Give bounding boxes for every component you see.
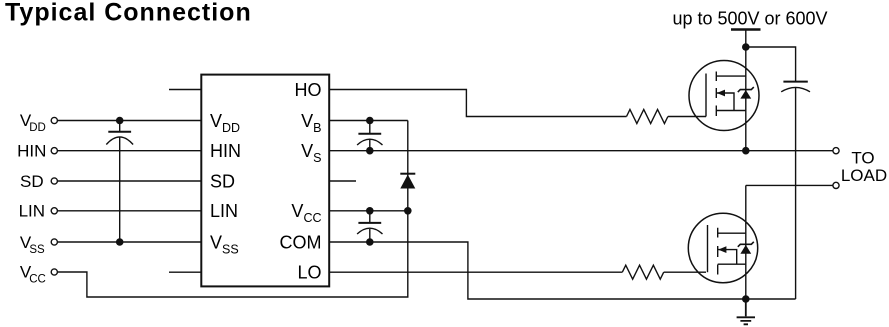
node COM/C3 junction <box>366 238 374 246</box>
capacitor C1 flat plate <box>108 131 131 133</box>
transistor Q2 low-side MOSFET circle <box>688 213 757 282</box>
capacitor C3 curved plate <box>357 228 382 234</box>
wire supply rail down to node <box>745 30 747 48</box>
wire Q2 drain vertical from load line to ground <box>745 185 747 299</box>
capacitor C2 wire bottom <box>369 139 371 150</box>
wire VS from U1 to load terminal <box>329 150 833 152</box>
terminal VSS <box>51 239 57 245</box>
terminal load upper <box>833 148 839 154</box>
transistor Q2 body diode triangle <box>740 245 751 254</box>
svg-text:LIN: LIN <box>19 202 45 221</box>
terminal HIN <box>51 148 57 154</box>
transistor Q2 body diode cathode bar <box>738 242 754 247</box>
capacitor C4 flat plate <box>783 81 807 83</box>
svg-text:CC: CC <box>29 274 46 286</box>
svg-text:DD: DD <box>29 122 46 134</box>
wire bootstrap diode vertical VB to VCC node <box>407 121 409 211</box>
transistor Q1 body lead <box>716 93 734 111</box>
capacitor C1 wire bottom to VSS <box>119 137 121 242</box>
transistor Q1 high-side MOSFET circle <box>689 61 759 131</box>
svg-text:VDD: VDD <box>210 111 240 135</box>
capacitor C1 curved plate <box>106 137 133 145</box>
terminal load lower <box>833 182 839 188</box>
node VCC/C3 junction <box>366 207 374 215</box>
svg-text:HIN: HIN <box>210 141 241 161</box>
unconnected stub left at HO level <box>169 89 201 91</box>
svg-text:VSS: VSS <box>210 232 239 256</box>
capacitor C1 VDD-VSS wire top <box>119 121 121 132</box>
wire VSS terminal to U1 <box>58 241 202 243</box>
wire LIN terminal to U1 <box>58 210 202 212</box>
capacitor C4 wire down to ground run <box>795 88 797 299</box>
node VS/C2 junction <box>366 147 374 155</box>
terminal VCC <box>51 269 57 275</box>
svg-text:LOAD: LOAD <box>841 166 887 185</box>
svg-text:TO: TO <box>851 149 874 168</box>
svg-text:COM: COM <box>280 232 322 252</box>
svg-text:SD: SD <box>210 171 235 191</box>
transistor Q2 source lead <box>718 263 746 265</box>
open terminals <box>51 117 839 275</box>
wire LO from U1 to gate resistor R2 <box>329 271 622 273</box>
svg-text:VS: VS <box>301 141 321 165</box>
resistor R2 low-side gate <box>622 265 663 279</box>
wire HO from U1 to gate resistor R1 <box>329 90 626 117</box>
svg-text:up to 500V or 600V: up to 500V or 600V <box>672 9 827 29</box>
node VSS/C1 junction <box>116 238 124 246</box>
transistor Q1 body diode triangle <box>740 90 751 99</box>
transistor Q2 body arrow <box>718 246 726 253</box>
node VDD/C1 junction <box>116 117 124 125</box>
ground symbol <box>737 299 755 324</box>
wire VDD terminal to U1 <box>58 120 202 122</box>
IC gate driver U1 box <box>201 75 329 287</box>
supply rail bar <box>731 28 761 30</box>
transistor Q2 body lead <box>718 250 737 265</box>
transistor Q1 channel segments <box>715 72 717 117</box>
diode D1 bootstrap triangle <box>400 175 415 189</box>
capacitor C3 wire bottom <box>369 229 371 242</box>
svg-text:SD: SD <box>20 172 44 191</box>
wire supply branch right to capacitor C4 <box>746 47 796 81</box>
node VB/C2 junction <box>366 117 374 125</box>
transistor Q2 gate bar <box>707 225 709 272</box>
capacitor C2 flat plate <box>358 133 381 135</box>
transistor Q1 body arrow <box>717 90 725 97</box>
capacitor C4 curved plate <box>781 87 810 91</box>
node VCC/D1 junction <box>404 207 412 215</box>
unconnected stub left at LO level <box>169 271 201 273</box>
terminal LIN <box>51 208 57 214</box>
svg-text:VB: VB <box>301 111 321 135</box>
svg-text:LO: LO <box>297 263 321 283</box>
transistor Q2 channel segments <box>717 228 719 275</box>
svg-text:Typical Connection: Typical Connection <box>5 0 252 27</box>
wire Q1 drain-source vertical supply to VS node <box>745 47 747 151</box>
transistor Q2 drain lead <box>718 232 746 234</box>
wire COM from U1 down and right to ground run <box>329 242 795 299</box>
svg-text:HIN: HIN <box>17 142 46 161</box>
transistor Q1 gate bar <box>705 74 707 117</box>
svg-text:LIN: LIN <box>210 201 238 221</box>
transistor Q1 drain lead <box>716 75 746 77</box>
wire VB from U1 to bootstrap diode corner <box>329 120 408 122</box>
wire R2 to Q2 gate <box>664 271 706 273</box>
node ground junction <box>742 295 750 303</box>
svg-text:SS: SS <box>29 244 45 256</box>
unconnected stub right at SD level <box>329 180 356 182</box>
node VS switch junction <box>742 147 750 155</box>
terminal VDD <box>51 117 57 123</box>
svg-text:VCC: VCC <box>291 201 321 225</box>
capacitor C2 curved plate <box>357 139 382 145</box>
resistor R1 high-side gate <box>627 110 668 124</box>
node supply branch junction <box>742 43 750 51</box>
transistor Q1 body diode cathode bar <box>738 87 754 92</box>
wire HIN terminal to U1 <box>58 150 202 152</box>
wire VCC terminal bottom route to VCC node <box>58 211 408 297</box>
svg-text:HO: HO <box>295 80 322 100</box>
transistor Q1 source lead <box>716 110 746 112</box>
wire load line 2 to terminal <box>746 184 833 186</box>
wire VCC pin from U1 to VCC node <box>329 210 408 212</box>
capacitor C2 bootstrap VB-VS wire top <box>369 121 371 134</box>
capacitor C3 flat plate <box>358 222 381 224</box>
terminal SD <box>51 178 57 184</box>
capacitor C3 VCC-COM wire top <box>369 211 371 222</box>
diode D1 bootstrap cathode bar <box>400 173 415 175</box>
wire SD terminal to U1 <box>58 180 202 182</box>
wire R1 to Q1 gate <box>668 116 706 118</box>
